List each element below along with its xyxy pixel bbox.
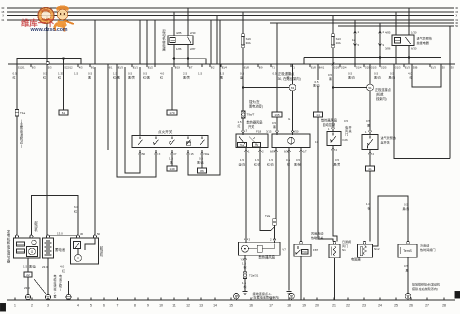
svg-text:红: 红 (74, 209, 77, 214)
svg-text:86: 86 (200, 169, 204, 173)
wire valve to bottom rail (334, 258, 336, 300)
wire 6/31 to mid ground (287, 292, 292, 295)
svg-text:21: 21 (332, 304, 336, 308)
svg-text:11: 11 (172, 304, 176, 308)
wire control pin 1/T down to thermo switch F87 (300, 151, 302, 241)
preheat switch contact (369, 136, 371, 139)
glow plug switch top pin (369, 131, 372, 135)
svg-text:黑/白: 黑/白 (348, 75, 355, 80)
svg-text:1.0: 1.0 (366, 202, 370, 206)
svg-text:插头(在: 插头(在 (249, 99, 260, 104)
svg-text:0.5: 0.5 (335, 158, 339, 162)
battery ground bolt circle (45, 294, 50, 299)
svg-text:散热器风扇: 散热器风扇 (247, 120, 263, 125)
starter solenoid contact (74, 242, 81, 249)
svg-text:9: 9 (147, 304, 149, 308)
svg-text:散热器风扇: 散热器风扇 (321, 118, 337, 123)
svg-text:(机舱: (机舱 (376, 92, 384, 97)
right jumper bar riser (303, 58, 305, 64)
F26 bottom pin (332, 146, 335, 150)
svg-text:1: 1 (14, 304, 16, 308)
ignition switch D box (132, 136, 208, 148)
svg-text:点火开关: 点火开关 (158, 129, 173, 134)
fan run-on control unit box (272, 134, 310, 148)
wire relay pin 87 to rail (187, 45, 189, 64)
rail crossing slash (332, 63, 335, 66)
svg-text:1.5: 1.5 (255, 158, 259, 162)
F18 switch contact 2 (249, 137, 257, 145)
relay coil (170, 38, 176, 43)
battery plates symbol (46, 240, 50, 242)
svg-text:T2a: T2a (265, 214, 271, 218)
svg-text:5: 5 (90, 304, 92, 308)
corner block bottom-right (455, 291, 460, 298)
svg-text:T9a/T: T9a/T (247, 113, 255, 117)
wire rail 81/1 to ignition switch supply (139, 67, 141, 136)
svg-text:黑/白: 黑/白 (313, 83, 320, 88)
fan ground pin fork (244, 256, 247, 260)
F87 pin circle (300, 241, 303, 244)
wire F87 to bottom rail (300, 256, 302, 300)
svg-text:电阻器: 电阻器 (351, 257, 361, 262)
wire T2a/31 to ground hatch (244, 279, 246, 292)
svg-text:0.5: 0.5 (296, 158, 300, 162)
svg-text:棕: 棕 (287, 162, 290, 167)
svg-text:25: 25 (394, 304, 398, 308)
starter internal wires (85, 238, 95, 250)
svg-text:26: 26 (409, 304, 413, 308)
svg-text:4/50: 4/50 (293, 130, 299, 134)
watermark mascot figure (53, 5, 74, 31)
starter pin 30 circle (77, 235, 80, 238)
svg-text:20: 20 (315, 304, 319, 308)
svg-text:红: 红 (160, 75, 163, 80)
svg-text:(在蓄电池旁线束内): (在蓄电池旁线束内) (253, 295, 280, 300)
svg-text:13: 13 (199, 304, 203, 308)
svg-text:50: 50 (97, 232, 101, 236)
svg-text:6/87: 6/87 (270, 150, 276, 154)
air flap switch F26 box (327, 132, 341, 146)
svg-text:2/30: 2/30 (190, 31, 196, 35)
svg-text:30B: 30B (413, 65, 418, 69)
intake preheat switch box (362, 135, 378, 150)
N12 resistor symbol (363, 246, 367, 255)
svg-text:22: 22 (26, 273, 30, 277)
svg-text:关: 关 (348, 128, 351, 133)
svg-text:0.5: 0.5 (286, 158, 290, 162)
wire bus 31 to rail 81/2 (146, 20, 148, 64)
F26 contact (332, 133, 334, 136)
wire S13 to rail (332, 48, 334, 63)
svg-text:黑: 黑 (170, 161, 173, 165)
svg-text:8A/1: 8A/1 (319, 65, 325, 69)
svg-text:5/3: 5/3 (48, 65, 52, 69)
svg-text:进气管预热: 进气管预热 (417, 36, 432, 41)
svg-text:黑/蓝: 黑/蓝 (29, 264, 36, 269)
svg-text:4.0: 4.0 (60, 265, 65, 269)
relay contact (188, 37, 192, 43)
wire control pin 6/87 down to T2a top (275, 151, 277, 218)
wire rail 81/3 to ignition pin X routing (117, 67, 156, 177)
wire F18 pin2 down and over to connector T2a (260, 151, 275, 230)
svg-text:1.5: 1.5 (240, 158, 244, 162)
ignition contact 15 (187, 137, 189, 140)
wire bus 15 to heater relay pin 85 (395, 12, 397, 35)
wire control pin 6/31 to ground point 18 (288, 151, 290, 290)
ignition pin P fork (171, 150, 174, 154)
rail terminal ticks and designators (16, 64, 18, 67)
svg-text:195: 195 (274, 113, 279, 117)
tag 86 (198, 168, 207, 173)
junction dot heater 87 (408, 56, 410, 58)
svg-text:T1a/: T1a/ (240, 145, 245, 147)
wire fuse S19 to rail 61/8 (242, 48, 244, 63)
bus line X (7, 15, 454, 17)
svg-text:149: 149 (169, 167, 174, 171)
wire rail 81/1 to ignition pin 50 routing (125, 67, 140, 173)
svg-text:9/1: 9/1 (91, 65, 95, 69)
svg-text:2: 2 (31, 304, 33, 308)
F18 bottom pin 1 (245, 148, 248, 152)
svg-text:4/85: 4/85 (385, 31, 391, 35)
control unit bottom pin 1/T (300, 148, 303, 152)
wire F18 pin1 down to fan motor pin 3 (245, 151, 247, 239)
svg-text:28: 28 (442, 304, 446, 308)
svg-text:8/T: 8/T (189, 65, 193, 69)
svg-text:风门: 风门 (342, 243, 348, 248)
wire tag41 to resistor N12 (369, 171, 371, 242)
wire fan to connector T2a/31 (244, 259, 246, 272)
bus line 15 (7, 11, 454, 13)
svg-text:15: 15 (191, 152, 195, 156)
svg-text:P: P (175, 152, 177, 156)
terminal 31 corner block bottom-left (0, 303, 6, 311)
wire jumper drop to rail S22/12 (63, 59, 65, 64)
svg-text:61/3: 61/3 (431, 65, 437, 69)
bus line 30b (right) (270, 22, 454, 24)
svg-text:N1: N1 (342, 248, 346, 252)
battery negative cable (47, 258, 49, 295)
wire rail 8A/1 down with tag 14 to shut-off valve (317, 67, 319, 80)
svg-text:51: 51 (368, 86, 372, 90)
svg-text:31: 31 (1, 18, 5, 22)
svg-text:蓝/白: 蓝/白 (239, 162, 246, 167)
svg-text:0.5: 0.5 (273, 72, 277, 76)
middle jumper bar drop (205, 59, 207, 64)
N12 pin circle (363, 241, 366, 244)
svg-text:23.0: 23.0 (42, 265, 48, 269)
tag 22 box (24, 272, 32, 277)
svg-text:14: 14 (213, 304, 217, 308)
svg-text:3: 3 (47, 304, 49, 308)
svg-text:16: 16 (249, 304, 253, 308)
svg-text:0.5: 0.5 (344, 119, 348, 123)
wire drop to rail 9/2 (216, 16, 218, 64)
svg-text:81/3: 81/3 (118, 65, 124, 69)
wire rail 5/3 to battery positive (46, 67, 48, 235)
generator pin circle 1 (16, 235, 19, 238)
svg-text:黑/黄: 黑/黄 (183, 75, 190, 80)
ignition contact 50a (201, 137, 203, 140)
ignition pin 50 fork (139, 150, 142, 154)
svg-text:3/86: 3/86 (385, 47, 391, 51)
svg-text:1/30: 1/30 (411, 31, 417, 35)
svg-text:G2/5: G2/5 (381, 65, 387, 69)
F18 bottom pin 2 (259, 148, 262, 152)
svg-text:热时间阀门: 热时间阀门 (420, 247, 435, 252)
svg-text:8: 8 (134, 304, 136, 308)
bottom ground rail 31 (7, 299, 455, 301)
generator G symbol (27, 247, 38, 257)
wire T9a to fan switch F18 (242, 118, 244, 131)
svg-text:黑/黄: 黑/黄 (403, 206, 410, 211)
svg-text:热敏开关: 热敏开关 (311, 235, 323, 240)
starter pin 50 circle (94, 235, 97, 238)
svg-text:22: 22 (346, 304, 350, 308)
wire bus 30 to relay J starter pin 30 (187, 8, 189, 36)
svg-text:14: 14 (316, 113, 320, 117)
tag 14 (314, 112, 323, 117)
ground connection point 1 circle (234, 293, 240, 299)
svg-text:1.5: 1.5 (198, 72, 203, 76)
svg-text:黑/蓝: 黑/蓝 (197, 160, 204, 165)
svg-text:10A: 10A (336, 41, 341, 45)
svg-text:G1/3: G1/3 (395, 65, 401, 69)
generator with voltage regulator C1 box (14, 238, 41, 258)
wire rail 9/1 to starter terminal 50 (94, 67, 96, 235)
svg-text:搭铁,在右前轮罩内): 搭铁,在右前轮罩内) (412, 286, 438, 291)
starter B box (71, 238, 99, 264)
svg-text:进气管预热: 进气管预热 (381, 135, 396, 140)
junction dot relay feed (187, 58, 189, 60)
wire rail T1 down to circle 63 (292, 64, 294, 84)
wire switch to tag 41 (369, 154, 371, 166)
svg-text:23: 23 (362, 304, 366, 308)
connector T2a two-pin (273, 219, 276, 222)
svg-text:线束内): 线束内) (376, 96, 387, 101)
fan motor pin 3 fork (245, 239, 248, 243)
svg-text:冷启动: 冷启动 (420, 243, 429, 248)
wire rail G2/8 to junction and F26 (332, 67, 334, 88)
svg-text:S22/12: S22/12 (64, 65, 73, 69)
svg-text:41: 41 (368, 167, 372, 171)
ground symbol fan wire (243, 292, 248, 295)
wire node down to connector T9a (242, 88, 244, 112)
svg-text:6/30: 6/30 (411, 47, 417, 51)
wire bus 15 to relay J starter pin 85 (173, 12, 175, 36)
fan internal link (249, 248, 258, 250)
svg-text:7: 7 (117, 304, 119, 308)
svg-text:30: 30 (80, 232, 84, 236)
right jumper bar above rail (304, 57, 441, 59)
fan motor pin 2 fork (273, 239, 276, 243)
svg-text:6/1: 6/1 (109, 65, 113, 69)
TemS pin circle (407, 241, 410, 244)
svg-text:9/2: 9/2 (211, 65, 215, 69)
svg-text:蓝: 蓝 (240, 75, 243, 80)
svg-text:红: 红 (13, 75, 16, 80)
svg-text:红: 红 (410, 75, 413, 80)
connector pair A symbols (354, 29, 357, 33)
svg-text:黑/白: 黑/白 (374, 75, 381, 80)
svg-text:蓄电池旁): 蓄电池旁) (249, 104, 263, 109)
svg-text:黑: 黑 (406, 269, 409, 273)
svg-text:24: 24 (378, 304, 382, 308)
ground connection point mid circle (289, 293, 295, 299)
svg-text:黑/黄: 黑/黄 (128, 75, 135, 80)
svg-text:): ) (21, 144, 22, 148)
ignition contact P (171, 137, 173, 140)
wire battery + to starter 30 (13.0) (48, 235, 78, 237)
cold start time valve box (398, 244, 417, 257)
svg-text:N12: N12 (374, 247, 380, 251)
svg-text:2/87: 2/87 (190, 47, 196, 51)
svg-text:0.5: 0.5 (404, 203, 408, 207)
svg-text:): ) (60, 288, 61, 292)
wire rail G1/5 down to connection 51 (369, 67, 371, 84)
junction dot node 30 (242, 86, 244, 88)
watermark logo circle (38, 8, 54, 24)
wire rail S22/12 to connection 61 tag (63, 67, 65, 110)
rail jumper 30B to 30 (412, 67, 441, 87)
junction dot 86 (173, 58, 175, 60)
svg-text:开关: 开关 (248, 124, 255, 129)
generator small circle (32, 240, 36, 244)
wire bus 31 drop with connector pair A (354, 20, 356, 64)
wire rail G1/3 down loop to bus 50 (394, 67, 450, 159)
connector T2a/31 (243, 272, 247, 279)
svg-text:3/15: 3/15 (266, 130, 272, 134)
bus line 50 (right) (338, 25, 454, 27)
bus line 30 (top) (7, 7, 454, 9)
fuse S19 30A (242, 12, 244, 34)
svg-text:黑: 黑 (220, 76, 223, 80)
wire bus 31 to rail 81/1 (139, 20, 141, 64)
svg-text:61/3: 61/3 (405, 65, 411, 69)
svg-text:1/T: 1/T (303, 150, 307, 154)
wire generator to tag 22 (27, 258, 29, 272)
heater relay contact (406, 37, 411, 44)
svg-text:(30, 在熔丝架内): (30, 在熔丝架内) (277, 76, 301, 81)
svg-text:61: 61 (62, 111, 66, 115)
svg-text:接地搭铁接点(发动机: 接地搭铁接点(发动机 (412, 282, 440, 287)
tag 170 box (167, 110, 177, 115)
svg-text:G1/5: G1/5 (371, 65, 377, 69)
wire bus 30b drop with connector pair B (379, 23, 381, 64)
svg-text:红: 红 (238, 123, 241, 128)
wire tag22 to ground bolt (27, 277, 29, 295)
svg-text:风扇启动: 风扇启动 (311, 231, 323, 236)
F26 top pin (332, 128, 335, 132)
svg-text:81/2: 81/2 (148, 65, 154, 69)
wire circle 63 down to control unit pin 4/50 (292, 91, 294, 131)
thermo switch F18 box (236, 134, 268, 148)
svg-text:黑: 黑 (329, 77, 332, 81)
svg-text:15: 15 (229, 304, 233, 308)
wire bus 31 to rail third (154, 20, 156, 64)
F18 terminal tag left (238, 143, 247, 148)
svg-text:8/19: 8/19 (175, 65, 181, 69)
diagonal ground strap (34, 279, 46, 294)
svg-text:18: 18 (287, 304, 291, 308)
wire T1a to generator B+ pin (16, 116, 18, 235)
svg-text:F18: F18 (256, 130, 262, 134)
svg-text:红: 红 (43, 75, 46, 80)
ignition contact X (155, 137, 157, 140)
svg-text:10: 10 (159, 304, 163, 308)
wire 51 down to glow switch (369, 91, 371, 131)
ground bolt circle generator (25, 294, 30, 299)
svg-text:9/3: 9/3 (32, 65, 36, 69)
wire relay pin 86 down to rail (173, 45, 175, 64)
preheat switch bottom pin (369, 150, 372, 154)
relay J starter box (168, 36, 193, 45)
svg-text:63: 63 (291, 86, 295, 90)
svg-text:丝继电器: 丝继电器 (417, 40, 429, 45)
positive connection point 63 circle (289, 84, 296, 91)
svg-text:蓄电池: 蓄电池 (55, 247, 66, 252)
wire ignition P to tag 149 (171, 154, 173, 166)
svg-text:12: 12 (186, 304, 190, 308)
svg-text:黑: 黑 (273, 125, 276, 129)
heater relay coil (395, 38, 401, 44)
wire T2a to fan motor pin 2 (274, 225, 276, 239)
wire bus X to rail node (46, 16, 48, 63)
svg-text:黑/白: 黑/白 (389, 75, 396, 80)
control unit bottom pin 6/31 (288, 148, 291, 152)
svg-text:0.5: 0.5 (404, 264, 408, 268)
svg-text:G1/4: G1/4 (356, 65, 362, 69)
wire bus X to fuse S13 (332, 16, 334, 34)
F18 switch contact 1 (239, 137, 245, 145)
wire tag 14 continues to valve (318, 117, 333, 242)
battery A box (43, 238, 54, 258)
battery pin circle (47, 235, 50, 238)
regulator element left (17, 242, 25, 246)
svg-text:www.dzsc.com: www.dzsc.com (30, 27, 68, 33)
track numbers along bottom rail (14, 298, 16, 301)
ignition pin 15 fork (187, 150, 190, 154)
ignition contact 50 (139, 137, 141, 140)
wire clamp to ground point (68, 281, 70, 295)
ground bolt circle engine (66, 294, 71, 299)
svg-text:6.0: 6.0 (74, 205, 79, 209)
svg-text:23.0: 23.0 (24, 286, 30, 290)
valve pin circle (333, 241, 336, 244)
svg-text:1/86: 1/86 (176, 47, 182, 51)
junction dot B (379, 56, 381, 58)
wire heater relay pin 86 to rail (395, 46, 397, 64)
svg-text:棕: 棕 (368, 206, 371, 211)
radiator fan motor V7 box (239, 242, 281, 255)
svg-text:1.5: 1.5 (74, 72, 79, 76)
svg-text:T6/: T6/ (255, 145, 259, 147)
wire bus 50 down right edge (449, 26, 451, 159)
ground connection point engine circle (405, 293, 411, 299)
fan series resistor (257, 245, 262, 252)
main rail (8, 63, 455, 65)
svg-text:12: 12 (352, 38, 356, 42)
svg-text:V7: V7 (282, 248, 286, 252)
svg-text:1.5: 1.5 (269, 158, 273, 162)
node open circle on rail (46, 61, 49, 64)
middle jumper bar above rail (172, 58, 206, 60)
svg-text:X: X (2, 14, 4, 18)
svg-text:13.0: 13.0 (57, 232, 63, 236)
svg-text:27: 27 (425, 304, 429, 308)
wire N12 second pin loop to TemS (373, 196, 409, 246)
wire bus 30b to rail 8/9 (276, 23, 278, 64)
